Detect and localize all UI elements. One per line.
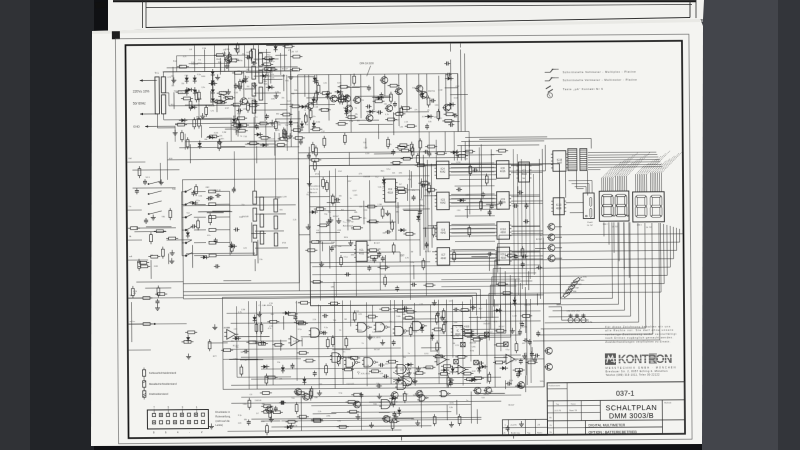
svg-text:Ub1: Ub1: [128, 158, 131, 160]
svg-text:C12: C12: [321, 131, 324, 133]
psuX resistor: [280, 137, 287, 140]
analogX resistor: [368, 315, 375, 318]
analog5 wire: [403, 318, 437, 320]
psuX ground: [219, 139, 221, 142]
midX diode: [186, 232, 190, 236]
svg-text:68k: 68k: [244, 419, 247, 421]
railband2 resistor: [402, 149, 409, 152]
analogX resistor: [528, 361, 535, 364]
analogY1 resistor: [296, 321, 303, 324]
svg-text:2,2k: 2,2k: [191, 62, 195, 64]
midleft resistor: [169, 237, 176, 240]
svg-text:Drahtwiderstand: Drahtwiderstand: [149, 392, 168, 396]
analog5 capacitor: [521, 321, 523, 323]
svg-text:BC107: BC107: [403, 394, 409, 396]
legend symbol interface 1: [545, 71, 550, 73]
svg-text:1n: 1n: [372, 260, 374, 262]
railband resistor: [375, 100, 382, 103]
psu3 resistor: [292, 105, 299, 108]
switch IC11 4016: [497, 247, 510, 265]
main sheet paper: [91, 18, 703, 446]
midrightbus capacitor: [536, 267, 538, 269]
wire display bottom pins down: [603, 222, 605, 236]
ground bottom: [210, 423, 212, 426]
psuX resistor: [215, 100, 222, 103]
midY wire: [198, 211, 232, 213]
analog5 resistor: [479, 335, 486, 338]
wire multiplex bus lines: [588, 166, 662, 169]
osc transistor: [354, 97, 361, 104]
wire switch out bus: [511, 164, 542, 166]
psu3 resistor: [189, 101, 192, 108]
bottomstrip resistor: [295, 405, 298, 412]
osc2 resistor: [435, 315, 438, 322]
midrightbus capacitor: [523, 220, 525, 222]
bottomX capacitor: [248, 419, 250, 421]
midY capacitor: [214, 265, 216, 267]
rightbustop wire: [445, 87, 458, 89]
leftedge wire: [145, 287, 171, 289]
nand gate G9: [381, 399, 390, 408]
midY wire: [212, 210, 230, 212]
wire ladder bus: [181, 192, 184, 256]
wire display left links: [566, 202, 584, 204]
svg-text:DMM 3003/B: DMM 3003/B: [609, 411, 654, 420]
bottomstrip resistor: [390, 420, 397, 423]
bottomX capacitor: [280, 402, 282, 404]
svg-text:10k: 10k: [376, 383, 379, 385]
svg-text:Schnittstelle Voltmeter - M: Schnittstelle Voltmeter - Multiplex - Pl…: [563, 70, 637, 75]
psu2 resistor: [284, 131, 287, 138]
svg-text:für 2s im: für 2s im: [310, 188, 319, 191]
svg-text:Ub: Ub: [550, 432, 552, 434]
analog2 resistor: [354, 393, 361, 396]
psuX resistor: [261, 136, 268, 139]
analog3 resistor: [351, 357, 358, 360]
svg-text:15k: 15k: [352, 320, 355, 322]
svg-text:1N4148: 1N4148: [255, 400, 262, 402]
svg-text:T3: T3: [339, 330, 341, 332]
svg-text:47n: 47n: [455, 372, 458, 374]
centerX wire: [327, 201, 340, 203]
rightmid capacitor: [491, 203, 493, 205]
top sheet frame inner top line: [146, 5, 692, 8]
connector pin strip: [147, 410, 208, 429]
analog2 resistor: [269, 410, 272, 417]
analogY2 diode: [502, 366, 506, 370]
betweencols resistor: [480, 202, 483, 209]
svg-text:47n: 47n: [221, 138, 224, 140]
psu ground: [226, 63, 228, 66]
centerX ground: [330, 217, 332, 220]
osc diode: [448, 76, 452, 80]
svg-text:47n: 47n: [313, 116, 316, 118]
analog2 capacitor: [376, 385, 378, 387]
analog1 resistor: [474, 377, 481, 380]
bottomstrip wire: [393, 417, 414, 419]
svg-text:4016: 4016: [500, 170, 506, 173]
analog5 capacitor: [453, 309, 455, 311]
osc capacitor: [394, 101, 396, 103]
bandY resistor: [304, 115, 307, 122]
psu2 diode: [257, 132, 261, 136]
svg-text:24.3.76: 24.3.76: [554, 410, 562, 412]
svg-text:220V± 10%: 220V± 10%: [133, 89, 150, 93]
svg-text:Tag: Tag: [527, 432, 530, 434]
svg-text:R4: R4: [247, 86, 249, 88]
osc diode: [311, 99, 315, 103]
svg-text:68k: 68k: [262, 404, 265, 406]
svg-text:R88: R88: [578, 284, 581, 286]
svg-text:C23: C23: [449, 301, 452, 303]
background left bar light strip: [0, 0, 30, 450]
psu2 resistor: [238, 117, 245, 120]
svg-text:10k: 10k: [171, 85, 174, 87]
psu3 resistor: [265, 57, 272, 60]
betweenband capacitor: [411, 284, 413, 286]
osc diode: [378, 96, 382, 100]
svg-text:330: 330: [278, 124, 281, 126]
analog5 resistor: [465, 330, 472, 333]
analog2 resistor: [248, 400, 251, 407]
svg-text:(nicht auf die: (nicht auf die: [215, 420, 230, 423]
svg-text:100k: 100k: [243, 404, 247, 406]
svg-text:Nam/ 23: Nam/ 23: [569, 410, 577, 412]
svg-text:100k: 100k: [225, 49, 229, 51]
analog1 capacitor: [529, 339, 531, 341]
psu3 ground: [290, 74, 292, 77]
psu2 resistor: [277, 144, 284, 147]
svg-text:470k: 470k: [360, 100, 364, 102]
analog1 resistor: [497, 329, 504, 332]
svg-text:1N4148: 1N4148: [242, 216, 249, 218]
flipflop box: [453, 326, 463, 339]
analogY1 ground: [258, 311, 260, 314]
svg-text:1,5M: 1,5M: [438, 90, 443, 92]
wire top verticals: [308, 75, 310, 133]
svg-text:D7: D7: [256, 413, 258, 415]
analog1 capacitor: [478, 362, 480, 364]
svg-text:Schnittstelle Voltmeter - M: Schnittstelle Voltmeter - Multimeter - P…: [563, 78, 638, 83]
leftX capacitor: [144, 179, 146, 181]
railband transistor: [344, 95, 351, 102]
switch bank left: [150, 181, 162, 184]
wire rail verticals dense: [304, 75, 306, 97]
wire top right links: [461, 140, 544, 143]
divider taps wire: [280, 103, 293, 105]
analog5 resistor: [409, 328, 412, 335]
betweenband2 resistor: [320, 224, 327, 227]
psuX resistor: [181, 133, 184, 140]
psu3 resistor: [216, 54, 223, 57]
centerX wire: [384, 255, 386, 271]
bottomX resistor: [264, 410, 271, 413]
psu3 diode: [188, 88, 192, 92]
wire right col verticals: [611, 222, 614, 298]
analog5 resistor: [353, 313, 356, 320]
analogX wire: [476, 316, 478, 335]
wire bottom verticals: [236, 306, 239, 377]
psuX wire: [173, 92, 175, 109]
analog5 resistor: [270, 320, 277, 323]
analogX resistor: [306, 359, 313, 362]
analog4 ground: [188, 354, 190, 357]
rightmid wire: [489, 205, 491, 216]
leftcol capacitor: [136, 188, 138, 190]
psuX wire: [266, 44, 289, 46]
svg-text:R27: R27: [479, 308, 482, 310]
svg-text:R2: R2: [247, 52, 249, 54]
midX capacitor: [192, 190, 194, 192]
bottomX diode: [287, 425, 291, 429]
svg-text:4,7k: 4,7k: [238, 312, 242, 314]
psu2 ground: [202, 113, 204, 116]
psu resistor: [179, 65, 186, 68]
analogY2 wire: [494, 356, 508, 358]
ground bottom: [290, 423, 292, 426]
svg-text:1n: 1n: [343, 351, 345, 353]
svg-text:Kohleschichtwiderstand: Kohleschichtwiderstand: [149, 371, 177, 375]
svg-text:C23: C23: [358, 314, 361, 316]
svg-text:1,5M: 1,5M: [282, 196, 287, 198]
psuX ground: [235, 46, 237, 49]
display DIS3 DL727: [633, 192, 665, 222]
betweenband capacitor: [368, 265, 370, 267]
display polarity module Pola3: [583, 193, 594, 219]
analogY2 diode: [451, 368, 455, 372]
svg-text:BC107: BC107: [374, 349, 380, 351]
top sheet paper: [108, 0, 704, 31]
bottomX wire: [456, 400, 458, 415]
svg-text:DL 727: DL 727: [612, 226, 618, 228]
svg-text:47n: 47n: [485, 320, 488, 322]
psu resistor: [235, 71, 242, 74]
osc diode: [313, 78, 317, 82]
divider taps wire: [265, 125, 267, 144]
svg-text:1,5M: 1,5M: [441, 333, 446, 335]
railband capacitor: [380, 92, 382, 94]
analogX resistor: [275, 343, 282, 346]
leftedge resistor: [157, 288, 160, 295]
wire latch-switch extra: [451, 193, 494, 195]
svg-text:4,7k: 4,7k: [167, 77, 171, 79]
centerics resistor: [370, 249, 377, 252]
svg-text:R90: R90: [583, 277, 586, 279]
pcb outline analog board: [222, 295, 544, 390]
centerX resistor: [391, 222, 394, 229]
nand gate G4: [413, 321, 422, 330]
analog2 resistor: [314, 420, 321, 423]
main sheet top edge shade: [92, 19, 700, 34]
svg-text:T12: T12: [485, 394, 488, 396]
svg-text:10k: 10k: [240, 352, 243, 354]
svg-text:1N4148: 1N4148: [469, 342, 476, 344]
osc resistor: [309, 111, 312, 118]
wire mid rail: [298, 131, 469, 132]
svg-text:1n: 1n: [350, 198, 352, 200]
psuX wire: [283, 74, 285, 91]
analog1 resistor: [426, 366, 433, 369]
transformer Tr1 primary: [155, 77, 159, 114]
osc transistor: [396, 88, 403, 95]
railband2 resistor: [437, 152, 444, 155]
legend resistor type symbol: [143, 370, 146, 376]
bottomstrip resistor: [458, 416, 461, 423]
psu transistor T2: [240, 98, 247, 105]
betweencols resistor: [485, 176, 488, 183]
wire latch to switch bus: [451, 163, 494, 165]
svg-text:1M: 1M: [408, 316, 411, 318]
svg-text:3,3k: 3,3k: [503, 330, 507, 332]
latchzone wire: [413, 265, 415, 279]
title block row line 1: [547, 400, 684, 401]
leftedge resistor: [158, 293, 165, 296]
analogY1 resistor: [298, 322, 305, 325]
osc2 resistor: [442, 311, 445, 318]
svg-text:330: 330: [279, 210, 282, 212]
svg-text:1M: 1M: [452, 343, 455, 345]
analogX diode: [518, 370, 522, 374]
analog1 capacitor: [517, 372, 519, 374]
title block row3 divider: [585, 426, 662, 429]
svg-text:1M: 1M: [403, 333, 406, 335]
svg-text:3,3k: 3,3k: [337, 420, 341, 422]
svg-text:mV in: mV in: [130, 321, 136, 323]
psu3 diode: [262, 74, 266, 78]
psu opamp 2N2904: [221, 94, 229, 103]
top sheet frame right border: [689, 0, 691, 18]
railband2 capacitor: [308, 153, 310, 155]
svg-text:Funktionsname: Funktionsname: [549, 384, 561, 387]
svg-text:T18: T18: [481, 397, 484, 399]
svg-text:R86: R86: [573, 291, 576, 293]
wire psu rail doubles: [163, 71, 298, 72]
betweencols wire: [488, 255, 490, 271]
bandY capacitor: [426, 124, 428, 126]
bandY resistor: [341, 95, 344, 102]
bottomX resistor: [403, 394, 406, 401]
wire bottom horiz: [223, 340, 287, 343]
psuX diode: [242, 79, 246, 83]
analog5 capacitor: [243, 350, 245, 352]
psu3 wire: [246, 71, 270, 73]
wire rightmid mesh: [468, 139, 471, 214]
midrightbus capacitor: [513, 205, 515, 207]
analog2 resistor: [297, 392, 304, 395]
top sheet shadow under edge: [108, 19, 703, 34]
psuX resistor: [178, 91, 185, 94]
analog2 resistor: [264, 405, 271, 408]
latchzone resistor: [417, 164, 424, 167]
bandY capacitor: [430, 100, 432, 102]
svg-text:Leiste): Leiste): [215, 424, 223, 427]
railband2 capacitor: [392, 149, 394, 151]
analog1 capacitor: [450, 381, 452, 383]
svg-text:BC107: BC107: [269, 138, 275, 140]
analogY2 capacitor: [534, 357, 536, 359]
psuX resistor: [210, 135, 217, 138]
background left bar: [30, 0, 94, 450]
drawing frame border: [125, 41, 685, 438]
psu2 resistor: [193, 120, 196, 127]
bottomstrip resistor: [392, 398, 395, 405]
psu transistor T3: [225, 56, 232, 63]
svg-text:DL 707: DL 707: [587, 225, 593, 227]
rightdrop wire: [536, 294, 538, 306]
svg-text:22k: 22k: [271, 77, 274, 79]
analog1 resistor: [434, 328, 441, 331]
midX capacitor: [233, 187, 235, 189]
wire multiplex dotted diagonals: [602, 167, 613, 178]
psuX resistor: [238, 129, 245, 132]
psu resistor: [250, 104, 257, 107]
rightbustop capacitor: [446, 74, 448, 76]
psuX wire: [235, 127, 237, 135]
midrightbus wire: [528, 271, 530, 290]
svg-text:Einstellzeit: Einstellzeit: [310, 185, 321, 188]
osc resistor: [321, 108, 328, 111]
osc2 capacitor: [402, 307, 404, 309]
wire band lines: [298, 151, 469, 152]
analog1 resistor: [435, 355, 442, 358]
centerics capacitor: [373, 257, 375, 259]
svg-text:470k: 470k: [413, 332, 417, 334]
bottomstrip resistor: [348, 401, 355, 404]
railband wire: [306, 97, 341, 99]
svg-text:68k: 68k: [315, 397, 318, 399]
svg-text:1,5M: 1,5M: [202, 48, 207, 50]
midleft ground: [171, 258, 173, 261]
analogY2 capacitor: [448, 379, 450, 381]
svg-text:100n: 100n: [351, 254, 355, 256]
analogX capacitor: [531, 351, 533, 353]
centerX ground: [308, 181, 310, 184]
legend symbol Taste: [546, 86, 551, 89]
wire gnd rail: [156, 125, 175, 127]
stamp KONTRON logo: [605, 353, 672, 367]
centerX resistor: [368, 205, 375, 208]
bandY resistor: [315, 93, 318, 100]
wire display output bundle: [499, 234, 683, 235]
switch IC10 4016: [497, 222, 510, 240]
svg-text:Telefon (089) 319-1011, Telex: Telefon (089) 319-1011, Telex 05-22122: [606, 373, 661, 377]
analogX resistor: [389, 360, 396, 363]
bandY wire: [372, 96, 391, 98]
rightbustop resistor: [445, 119, 452, 122]
betweencols capacitor: [487, 253, 489, 255]
legend resistor type symbol: [143, 391, 146, 397]
svg-text:4016: 4016: [501, 257, 507, 260]
rightmid resistor: [469, 166, 472, 173]
leftcol resistor: [138, 169, 141, 176]
divider taps capacitor: [266, 114, 268, 116]
svg-text:Pola3: Pola3: [587, 222, 593, 224]
analogY1 wire: [280, 340, 282, 351]
top sheet frame left border: [142, 0, 144, 28]
psu4 wire: [256, 146, 258, 163]
psu4 resistor: [283, 113, 290, 116]
svg-text:5,6k: 5,6k: [378, 187, 382, 189]
analog1 resistor: [447, 378, 450, 385]
svg-text:15k: 15k: [235, 347, 238, 349]
svg-text:330: 330: [171, 76, 174, 78]
svg-text:10k: 10k: [294, 90, 297, 92]
centerics resistor: [392, 245, 395, 252]
svg-text:Name: Name: [537, 432, 543, 434]
analogY1 capacitor: [294, 315, 296, 317]
svg-text:D4: D4: [347, 113, 349, 115]
svg-text:2N3794: 2N3794: [428, 91, 436, 93]
